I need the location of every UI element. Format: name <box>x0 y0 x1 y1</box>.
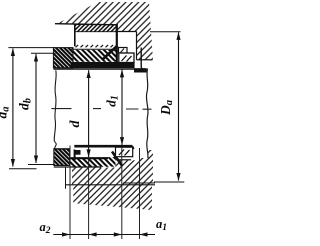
dimension d1 <box>120 69 124 145</box>
dimension a1 line and arrows <box>101 232 156 236</box>
d_b extension bottom <box>28 164 54 166</box>
D_a extension bottom <box>154 181 184 183</box>
dimension d_b <box>34 54 38 164</box>
outer ring cup top band (fine hatch) <box>75 25 117 32</box>
housing bottom right ledge line <box>123 182 155 184</box>
housing bottom hatch region B <box>73 185 152 210</box>
short line under bottom rect <box>116 159 132 161</box>
cup bottom line <box>70 157 108 159</box>
inner ring bottom left block <box>54 149 70 166</box>
dimension d (vertical line with arrows) <box>87 70 91 157</box>
hook at right end of bottom shaft line <box>133 146 134 149</box>
housing bottom bore line <box>66 184 156 186</box>
housing pocket floor <box>117 31 137 33</box>
extension line a2 right / d-line continued (x=88.6) <box>88 157 90 239</box>
bottom shaft thick line right <box>74 145 132 148</box>
shaft break line (wavy, left) <box>54 70 56 149</box>
shaft right break line (wavy) <box>146 69 148 159</box>
D_a extension top <box>150 31 181 33</box>
housing bottom face <box>137 59 153 61</box>
housing bottom hatch region A <box>72 168 153 185</box>
housing bore line <box>55 24 117 25</box>
inner ring top left block (bold hatch) <box>53 48 73 68</box>
housing bore edge stub right <box>141 48 144 70</box>
dimension d_a (left) <box>11 48 15 167</box>
d_a extension bottom <box>9 168 37 170</box>
housing pocket wall <box>136 32 138 60</box>
dimension a2 line and arrows <box>53 232 100 236</box>
inner ring raceway top line <box>71 48 117 50</box>
cup right face flange <box>116 24 118 65</box>
bottom inner band (bold hatch) <box>70 157 116 167</box>
d_a extension top <box>8 47 55 49</box>
inner ring mid band (bold hatch) <box>73 50 117 62</box>
roller (bottom, skewed bold) <box>112 152 122 167</box>
locating ring rect (top) with // <box>119 48 135 63</box>
bottom shaft line left <box>53 148 69 150</box>
extension line a1 right (x=137.9) <box>139 148 141 239</box>
svg-text:d: d <box>68 120 83 128</box>
centerline (dash-dot) <box>51 108 151 111</box>
housing top (coarse hatched block) <box>57 2 153 60</box>
extension line a1 left (x=118) <box>121 147 123 239</box>
housing bottom hatch below rect <box>116 150 154 168</box>
d_b extension top <box>31 52 56 54</box>
shaft top line <box>53 68 146 70</box>
cup bottom left flange <box>74 150 76 161</box>
roller (top, skewed bold) <box>103 46 118 60</box>
locating ring rect (bottom) with // <box>116 147 133 157</box>
cage dashes row (top) <box>76 45 117 47</box>
inner ring black band (top) <box>71 62 135 68</box>
black blob right end <box>134 68 147 72</box>
black blob bottom left <box>74 150 80 155</box>
inner ring bottom face line <box>54 166 101 168</box>
housing bottom left vertical <box>65 168 67 189</box>
cup left face <box>74 24 76 47</box>
dimension D_a (right) <box>176 32 180 181</box>
extension line a2 left (x=70) <box>69 146 71 240</box>
